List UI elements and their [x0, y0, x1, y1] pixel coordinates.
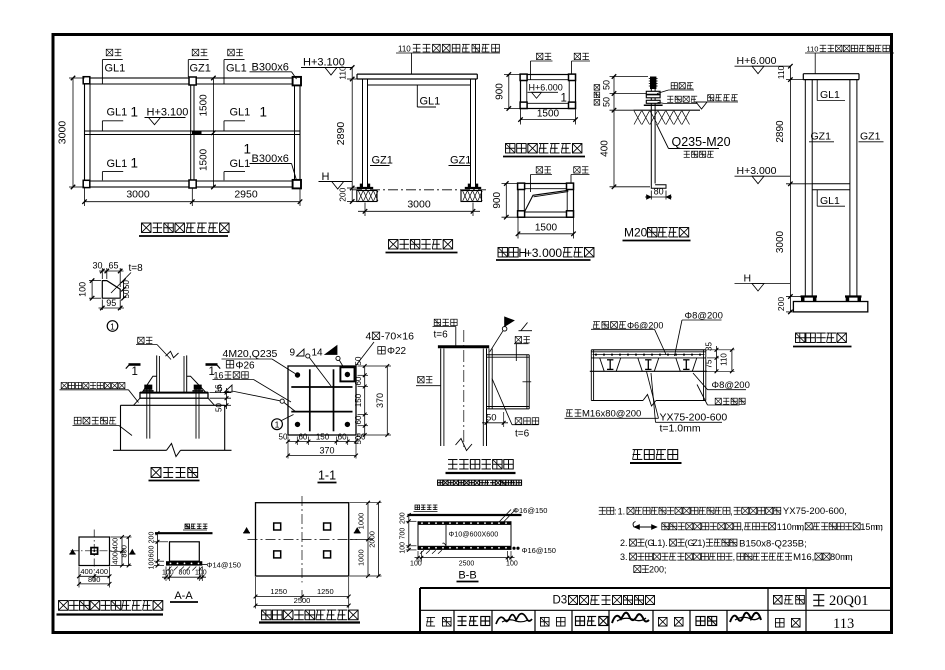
callout steel column GZ1 top-middle	[192, 49, 199, 56]
beam end	[526, 355, 528, 409]
roof slab	[803, 73, 859, 75]
svg-text:113: 113	[833, 616, 854, 632]
svg-text:2890: 2890	[775, 120, 786, 143]
svg-text:H+3.000: H+3.000	[737, 165, 777, 177]
svg-text:110: 110	[776, 65, 786, 79]
label adjusting nut	[667, 95, 673, 97]
svg-text:;: ;	[880, 522, 883, 532]
dim 95 bottom	[101, 300, 103, 311]
dim 50	[486, 411, 488, 427]
svg-text:,: ,	[741, 522, 744, 532]
svg-text:2500: 2500	[294, 596, 311, 605]
svg-text:1: 1	[110, 321, 115, 331]
centerlines	[301, 496, 303, 583]
svg-text:1-1: 1-1	[318, 469, 336, 483]
row: proofread	[540, 617, 549, 626]
column GZ1 left	[804, 80, 806, 297]
label d14@150	[202, 564, 207, 566]
frame plan beams	[518, 184, 574, 218]
svg-text:60: 60	[354, 415, 363, 424]
svg-text:H: H	[744, 272, 752, 284]
soil hatch below footing	[168, 567, 172, 571]
deck direction arrow	[634, 526, 657, 528]
svg-text:1: 1	[260, 105, 268, 120]
corner column top-left	[83, 77, 90, 84]
dim chain 110/2890/3000/200	[786, 79, 803, 81]
svg-text:30: 30	[92, 261, 102, 271]
svg-text:1: 1	[131, 105, 139, 120]
svg-text:,: ,	[733, 552, 736, 562]
label steel column	[138, 337, 144, 343]
leader t=8	[111, 273, 131, 294]
title frame elevation	[796, 333, 805, 342]
callout steel beam	[536, 167, 542, 173]
svg-text:800: 800	[179, 570, 191, 577]
label foundation top surface with level mark	[708, 95, 714, 101]
dim 100 left	[89, 280, 101, 282]
svg-text:4M20,Q235: 4M20,Q235	[223, 348, 278, 360]
svg-text:3000: 3000	[126, 189, 150, 201]
bolt shank	[650, 89, 652, 184]
title guard-room roof plan	[142, 223, 151, 232]
svg-text:.: .	[625, 538, 628, 548]
svg-text:GL1: GL1	[820, 89, 840, 101]
svg-text:3000: 3000	[407, 199, 431, 211]
bottom dims 1250/1250 + 2500	[255, 577, 257, 609]
signature 3	[730, 613, 761, 622]
svg-text:Φ22: Φ22	[387, 346, 407, 357]
label distribution rebar d6@200	[593, 321, 600, 323]
svg-text:GL1: GL1	[226, 63, 247, 75]
svg-text:100: 100	[506, 560, 518, 567]
signature 2	[612, 613, 649, 623]
svg-text:GZ1: GZ1	[372, 155, 393, 167]
svg-text:700: 700	[400, 528, 407, 540]
svg-text:50: 50	[122, 280, 131, 289]
svg-text:1250: 1250	[270, 587, 287, 596]
gusset stiffener right	[187, 376, 206, 392]
foundation pier	[170, 542, 200, 561]
svg-text:100: 100	[195, 570, 207, 577]
anchor bolts	[295, 372, 300, 377]
svg-text:50: 50	[357, 433, 366, 442]
svg-text:50: 50	[122, 289, 131, 298]
svg-text:9: 9	[290, 348, 296, 359]
svg-text:1500: 1500	[199, 94, 210, 117]
gusset stiffener left	[142, 376, 157, 392]
bottom dims 100/800/100	[165, 567, 167, 582]
column stubs (4)	[274, 523, 281, 530]
svg-text:100: 100	[410, 560, 422, 567]
svg-text::: :	[614, 506, 617, 516]
adjusting nut	[646, 100, 660, 103]
svg-text:75: 75	[705, 359, 714, 368]
title beam-column joint	[448, 459, 457, 461]
svg-text:Φ10@600X600: Φ10@600X600	[449, 530, 499, 539]
title guard room column foundation plan	[59, 601, 69, 611]
svg-text:H+6.000: H+6.000	[529, 83, 563, 93]
anchor bolt left	[144, 385, 152, 390]
svg-text:,: ,	[850, 552, 853, 562]
column GZ1 left	[362, 79, 364, 188]
dim 50 grout	[216, 404, 231, 406]
left dim chain 200/700/100	[406, 520, 417, 522]
column GZ1 right	[849, 80, 851, 297]
double nuts	[646, 91, 660, 94]
svg-text:GL1: GL1	[420, 96, 441, 108]
svg-text:600: 600	[148, 546, 155, 558]
svg-text:900: 900	[492, 192, 503, 209]
svg-text:B-B: B-B	[458, 570, 476, 582]
dims 30 65 top	[101, 268, 103, 279]
corner column top-right B300x6	[293, 77, 301, 86]
stiffener lines vertical (column walls)	[309, 369, 311, 431]
label shear stud M16x80@200	[566, 409, 573, 411]
section mark 1 left	[129, 363, 141, 366]
svg-text:80: 80	[654, 187, 664, 197]
steel deck top line	[591, 357, 706, 359]
column GZ1 right	[470, 79, 472, 188]
label cap plate t=6	[434, 319, 440, 325]
label fine concrete secondary grouting	[61, 382, 67, 388]
left dim chain 200/600/100	[154, 541, 168, 543]
dim 80 bottom	[650, 191, 652, 200]
label inner sleeve t=6	[515, 418, 522, 425]
svg-text:.: .	[665, 538, 668, 548]
grout pad	[134, 398, 141, 405]
svg-text:2950: 2950	[234, 189, 258, 201]
detail circle 1 with leader	[272, 419, 283, 430]
beam top flange	[487, 354, 530, 356]
svg-text:100: 100	[148, 558, 155, 570]
svg-text:50: 50	[486, 413, 497, 424]
svg-text:H+3.100: H+3.100	[147, 107, 189, 119]
middle beam GL1 at H+3.000	[812, 183, 850, 185]
middle beam GL1	[85, 130, 300, 132]
distribution rebar with dots	[593, 354, 705, 356]
svg-text:-70×16: -70×16	[381, 331, 414, 343]
svg-text:B150x8-Q235B;: B150x8-Q235B;	[739, 538, 807, 549]
bottom outer dim 370	[288, 455, 356, 457]
dim chain 50/50 left	[610, 76, 649, 78]
callout steel beam GL1 top-right	[228, 49, 235, 56]
svg-text:Φ6@200: Φ6@200	[627, 320, 663, 330]
sheet border frame	[53, 35, 892, 633]
svg-text:1000: 1000	[357, 549, 366, 566]
svg-text:Φ26: Φ26	[236, 360, 256, 371]
frame roof plan beams	[521, 75, 576, 109]
concrete foundation	[121, 404, 225, 406]
svg-text:3000: 3000	[775, 230, 786, 253]
washer plate top-right	[340, 367, 354, 381]
svg-text:60: 60	[354, 376, 363, 385]
svg-text:1: 1	[275, 420, 280, 430]
detail number circle 1	[107, 321, 118, 332]
svg-text:Φ16@150: Φ16@150	[522, 546, 556, 555]
dim chain 35/75 right	[707, 349, 735, 351]
beam bottom flange	[487, 406, 530, 408]
svg-text:60: 60	[338, 433, 347, 442]
label concrete foundation	[74, 417, 81, 424]
label d16@150 bottom	[512, 547, 515, 550]
svg-text:110: 110	[338, 66, 348, 80]
outer dim 110	[731, 350, 733, 372]
label GL1	[416, 85, 418, 107]
svg-text:t=1.0mm: t=1.0mm	[660, 423, 701, 435]
sub-note box beam connection	[438, 480, 443, 485]
svg-text:1: 1	[561, 93, 567, 105]
ground centre dash-dot line	[352, 189, 486, 191]
corner column bottom-left	[83, 180, 90, 187]
svg-text:GZ1: GZ1	[190, 63, 211, 75]
label page	[775, 618, 784, 627]
svg-text:t=8: t=8	[129, 263, 144, 274]
beam centre tick	[523, 381, 532, 383]
svg-text:6: 6	[217, 384, 223, 395]
svg-text:,: ,	[730, 506, 733, 516]
dims 50 50 right	[123, 281, 125, 299]
dim 3000 left	[69, 77, 85, 79]
deck bottom flange	[590, 370, 707, 372]
svg-text:200: 200	[776, 297, 786, 311]
svg-text:50: 50	[354, 356, 363, 365]
site weld flag symbol	[505, 317, 514, 326]
anchor bolt right	[194, 385, 202, 390]
soil hatch below left	[420, 550, 424, 554]
right dims 1000/1000 + 2000	[350, 502, 382, 504]
svg-text:1500: 1500	[535, 223, 558, 234]
label steel beam indication	[715, 398, 721, 404]
diagonal brace plate	[525, 190, 569, 211]
dims 3000 / 2950 bottom	[84, 188, 86, 206]
svg-text:100: 100	[162, 570, 174, 577]
dim chain 110/2890/200 left	[347, 78, 363, 80]
section arrows B-B	[244, 528, 250, 533]
dim 1500 upper	[212, 78, 214, 187]
svg-text:M16x80@200: M16x80@200	[582, 409, 641, 420]
svg-text:150: 150	[316, 433, 330, 442]
title block frame	[420, 587, 892, 589]
anchor bolt threaded head	[650, 77, 656, 90]
svg-text:t=6: t=6	[515, 429, 530, 440]
corner column bottom-right B300x6	[293, 180, 301, 189]
svg-text:110: 110	[398, 45, 411, 54]
weld symbol slash	[521, 323, 528, 331]
svg-text:20Q01: 20Q01	[829, 593, 868, 609]
svg-text:M20: M20	[624, 226, 648, 240]
svg-text:D3: D3	[553, 595, 568, 607]
notes text	[599, 506, 606, 508]
signature 1	[496, 614, 532, 624]
slab top rebar band	[418, 521, 511, 525]
svg-text:1500: 1500	[537, 108, 560, 119]
svg-text:2000: 2000	[368, 531, 377, 548]
label GL1 upper	[816, 80, 818, 101]
svg-text:GL1: GL1	[107, 158, 128, 170]
svg-text:M16,: M16,	[793, 552, 814, 563]
svg-text:1: 1	[132, 366, 138, 378]
svg-text:200: 200	[400, 512, 407, 524]
svg-text:95: 95	[106, 298, 116, 308]
svg-text:370: 370	[375, 393, 385, 408]
svg-text:100: 100	[400, 542, 407, 554]
right dim chain 50/60/150/60/50	[358, 374, 369, 376]
beam GL1 bottom flange	[368, 84, 471, 86]
base plate outline	[288, 366, 356, 435]
stiffener lines horizontal	[291, 386, 352, 388]
inner sleeve	[488, 349, 490, 409]
ground line	[155, 532, 213, 534]
foundation slab rectangle	[256, 503, 349, 576]
base plate 16 thick	[140, 393, 208, 399]
svg-text:.: .	[623, 506, 626, 516]
column stub	[91, 548, 98, 555]
svg-text:200: 200	[148, 532, 155, 544]
svg-text:800: 800	[119, 545, 128, 558]
right outer dim 370	[386, 366, 388, 435]
stiffener plate shape	[102, 281, 120, 299]
svg-text:;: ;	[664, 565, 667, 575]
cap plate	[438, 345, 489, 348]
foundation block left	[357, 191, 377, 202]
svg-text:): )	[702, 538, 705, 548]
callout steel beam GL1 top-left	[106, 49, 113, 56]
svg-text:GL1: GL1	[107, 107, 128, 119]
dim 16 plate thickness	[210, 392, 232, 394]
svg-text:GZ1: GZ1	[811, 131, 832, 143]
title frame plan H+3.000	[498, 248, 507, 257]
svg-text:2890: 2890	[335, 122, 347, 146]
label steel column	[418, 377, 424, 383]
svg-text:900: 900	[495, 83, 506, 100]
svg-text:GL1: GL1	[230, 107, 251, 119]
svg-text:200: 200	[338, 187, 348, 201]
svg-text:Q235-M20: Q235-M20	[672, 135, 731, 149]
svg-text:65: 65	[108, 261, 118, 271]
column box section	[440, 349, 442, 447]
label ground beam level	[415, 505, 420, 510]
svg-text:16: 16	[214, 371, 224, 381]
title frame column foundation plan	[262, 610, 272, 620]
title floor slab construction	[633, 449, 643, 451]
svg-text:60: 60	[298, 433, 307, 442]
svg-text:100: 100	[78, 282, 88, 297]
svg-text:14: 14	[312, 348, 324, 359]
middle column line GZ1	[190, 78, 192, 187]
svg-text:1: 1	[131, 156, 139, 171]
svg-text:400: 400	[600, 140, 611, 157]
svg-text:110: 110	[720, 353, 729, 366]
svg-text:150: 150	[354, 393, 363, 407]
base plate right with anchor bolts	[465, 187, 481, 189]
ground line	[408, 514, 522, 516]
foundation pedestal	[793, 302, 867, 312]
supporting beam sides	[590, 350, 592, 401]
svg-text:.: .	[625, 552, 628, 562]
title frame roof plan	[506, 144, 515, 153]
callout steel beam	[537, 53, 543, 59]
svg-text:800: 800	[88, 575, 101, 584]
bolt bottom hook	[651, 184, 666, 189]
svg-text:t=6: t=6	[434, 330, 449, 341]
svg-text:50: 50	[602, 97, 612, 107]
svg-text:1: 1	[244, 142, 252, 157]
deck ribs with shear studs	[600, 358, 605, 371]
break mark bottom	[456, 439, 473, 451]
column shaft	[156, 355, 158, 392]
bottom dims 100/2500/100	[417, 551, 419, 562]
base plates and anchor bolts	[801, 295, 818, 297]
svg-text:,: ,	[802, 522, 805, 532]
dim 1500 bottom	[517, 218, 519, 239]
centerlines	[71, 550, 118, 552]
svg-text:GL1: GL1	[105, 63, 126, 75]
svg-text:35: 35	[705, 342, 714, 351]
dim 900 left	[502, 183, 519, 185]
title guard-room elevation	[389, 240, 398, 249]
svg-text:3000: 3000	[57, 121, 69, 145]
label ground level	[185, 524, 190, 529]
foundation square	[79, 537, 110, 566]
roof plan outer beams GL1	[85, 78, 301, 187]
beam bottom break	[591, 400, 643, 402]
dim 3000 bottom	[364, 203, 366, 217]
slab side edges	[417, 521, 419, 550]
svg-text:370: 370	[319, 445, 334, 455]
svg-text:4: 4	[366, 331, 372, 343]
svg-text:50: 50	[279, 433, 288, 442]
svg-text:YX75-200-600,: YX75-200-600,	[783, 506, 847, 517]
svg-text:50: 50	[215, 403, 224, 412]
svg-text:110: 110	[807, 45, 819, 54]
atlas number Yu 20Q01	[813, 594, 824, 596]
bottom dims 400/400 + 800	[78, 567, 80, 588]
row: design	[658, 617, 667, 626]
roof slab	[357, 73, 477, 75]
svg-text:GZ1: GZ1	[450, 155, 471, 167]
svg-text:1000: 1000	[357, 513, 366, 530]
svg-text:1500: 1500	[199, 148, 210, 171]
concrete topping	[591, 349, 706, 351]
svg-text:H+6.000: H+6.000	[737, 55, 777, 67]
label GL1 lower	[816, 190, 818, 206]
svg-text:Φ16@150: Φ16@150	[513, 506, 547, 515]
column centerline	[463, 330, 465, 448]
label thread length (vertical)	[594, 85, 600, 91]
foundation ground hatch	[634, 109, 701, 111]
callout steel column	[574, 167, 580, 173]
stirrup middle	[445, 525, 447, 546]
break line column top	[166, 351, 179, 357]
svg-text:0: 0	[555, 246, 562, 260]
base plate left with anchor bolts	[357, 187, 373, 189]
right dims 400/400 + 800	[111, 536, 132, 538]
dim 900 left	[504, 74, 521, 76]
svg-text:1250: 1250	[317, 587, 334, 596]
section mark 1 right	[206, 363, 218, 366]
row: examine	[426, 616, 435, 618]
svg-text:GZ1: GZ1	[860, 131, 881, 143]
slab bottom rebar band	[418, 546, 511, 550]
junction mark center	[192, 132, 202, 135]
svg-text:GL1: GL1	[820, 195, 840, 207]
footing with rebar (black band)	[166, 561, 202, 565]
dim 1500 bottom	[520, 109, 522, 125]
svg-text:Φ14@150: Φ14@150	[207, 561, 241, 570]
foundation block right	[461, 191, 482, 202]
label atlas number	[773, 595, 782, 604]
title steel column base	[151, 468, 161, 478]
